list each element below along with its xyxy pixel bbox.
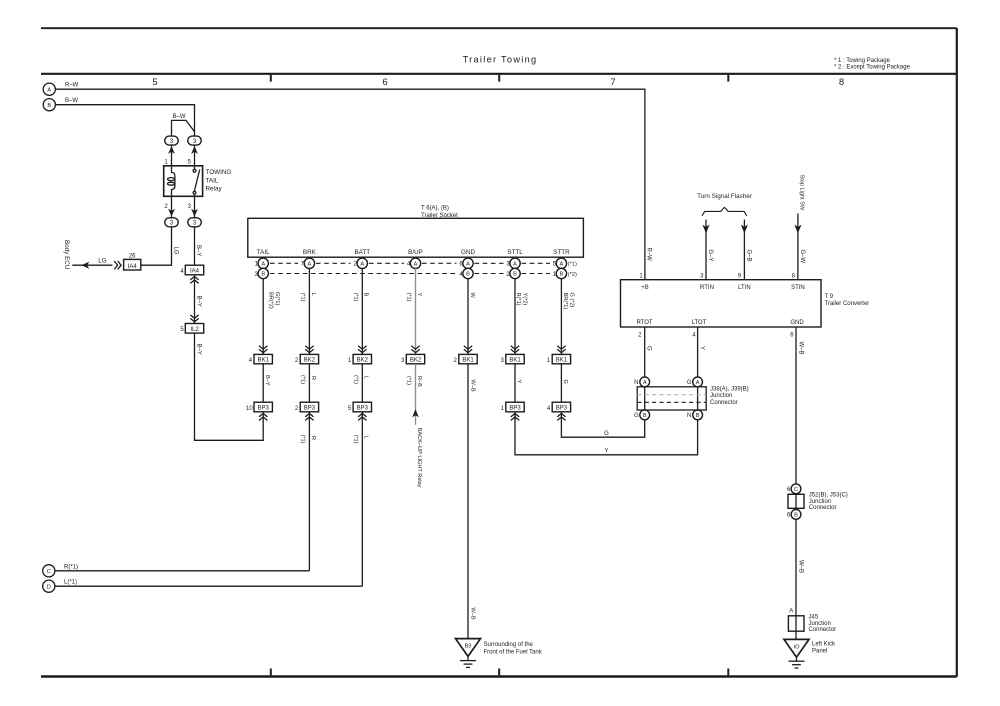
svg-text:6: 6: [382, 77, 387, 88]
svg-text:B/UP: B/UP: [408, 249, 423, 256]
connector IA4 pin 26: [124, 253, 141, 270]
svg-text:BK1: BK1: [509, 358, 521, 364]
connector BK2 pin 1: [348, 354, 372, 364]
chevron junction: [464, 346, 472, 353]
bus row A dashed: [270, 262, 550, 264]
connector BK1 pin 3: [501, 354, 525, 364]
svg-text:BATT: BATT: [354, 249, 370, 256]
wire G-Y from flasher to RTIN: [705, 220, 707, 280]
wire RTOT G: [644, 327, 646, 377]
pin 4 A (B/UP): [407, 258, 421, 268]
wire L(*1) from D: [55, 585, 362, 587]
svg-text:26: 26: [129, 253, 136, 259]
svg-text:T 9: T 9: [825, 294, 834, 300]
svg-text:R–W: R–W: [65, 82, 79, 88]
svg-text:G–W: G–W: [799, 250, 805, 264]
svg-text:BP3: BP3: [258, 406, 270, 412]
svg-text:L: L: [310, 293, 316, 296]
svg-text:Y: Y: [516, 380, 522, 384]
svg-text:Junction: Junction: [809, 499, 831, 505]
svg-text:(*1): (*1): [352, 435, 358, 444]
svg-text:TAIL: TAIL: [206, 177, 219, 184]
chevron junction: [305, 346, 313, 353]
svg-text:BP3: BP3: [556, 406, 568, 412]
wire R: [308, 364, 310, 402]
pin 3 A (STTL): [506, 258, 520, 268]
svg-text:R: R: [310, 376, 316, 380]
arrow: [702, 225, 709, 234]
wire BRK column: [308, 269, 310, 355]
svg-text:STIN: STIN: [791, 285, 805, 291]
svg-text:Surrounding of the: Surrounding of the: [484, 642, 534, 648]
svg-text:BRK: BRK: [303, 249, 317, 256]
wire IL2 down to TAIL column: [195, 333, 264, 440]
ground B3: [456, 639, 481, 668]
wire Y: [514, 364, 516, 402]
chevron junction: [511, 346, 519, 353]
svg-text:Connector: Connector: [710, 400, 738, 406]
svg-text:G–Y: G–Y: [707, 250, 713, 262]
wire pin2 leg to IA4: [141, 227, 172, 265]
brace: [702, 207, 747, 216]
bus row B dashed: [270, 273, 550, 275]
wire G-W from stop light sw to STIN: [797, 214, 799, 280]
svg-text:Junction: Junction: [809, 621, 831, 627]
svg-text:Turn Signal Flasher: Turn Signal Flasher: [697, 193, 752, 200]
svg-text:BR(*2): BR(*2): [268, 292, 274, 309]
wire W-B to ground B3: [467, 364, 469, 639]
node C: [43, 565, 55, 577]
svg-text:Left Kick: Left Kick: [812, 641, 836, 647]
svg-text:BK2: BK2: [357, 358, 369, 364]
svg-text:G: G: [646, 346, 652, 351]
svg-text:LTIN: LTIN: [738, 285, 751, 291]
wire R-B (grey) to back-up light relay: [415, 364, 417, 425]
svg-text:10: 10: [246, 406, 253, 412]
pin 6 B: [787, 510, 801, 520]
svg-text:B: B: [696, 413, 700, 419]
pin G A: [687, 377, 703, 387]
svg-text:W–B: W–B: [797, 342, 803, 355]
wire Y to junction connector: [515, 412, 698, 455]
svg-text:Y(*2): Y(*2): [522, 293, 528, 306]
chevron junction: [411, 346, 419, 353]
arrow to Body ECU: [81, 262, 89, 269]
wire relay pin2 down: [171, 196, 173, 218]
connector BP3 pin 2: [295, 402, 319, 412]
svg-text:C: C: [794, 487, 798, 493]
svg-text:IL2: IL2: [190, 327, 199, 333]
wire R(*1) from C: [55, 570, 310, 572]
svg-text:B–Y: B–Y: [196, 344, 202, 355]
svg-text:A: A: [261, 261, 265, 267]
svg-text:R: R: [310, 436, 316, 440]
connector BK1 pin 2: [454, 354, 478, 364]
svg-text:RTOT: RTOT: [636, 320, 652, 326]
wire BATT column: [361, 269, 363, 355]
svg-text:Stop Light SW: Stop Light SW: [798, 175, 804, 211]
node D: [43, 580, 55, 592]
svg-text:A: A: [560, 261, 564, 267]
svg-text:B: B: [643, 413, 647, 419]
wire IA4 to IL2: [194, 275, 196, 324]
svg-text:(*1): (*1): [406, 293, 412, 302]
svg-text:A: A: [643, 380, 647, 386]
wire R-W from A to converter +B: [55, 89, 645, 280]
svg-text:(*1): (*1): [568, 262, 577, 268]
connector box: [788, 494, 804, 510]
svg-text:R–B: R–B: [416, 376, 422, 387]
svg-text:R(*1): R(*1): [64, 564, 78, 570]
svg-text:(*1): (*1): [299, 435, 305, 444]
svg-text:G(*1): G(*1): [274, 292, 280, 306]
svg-text:Y: Y: [699, 346, 705, 350]
svg-text:A: A: [789, 609, 793, 615]
svg-text:B: B: [363, 293, 369, 297]
pin 7 A (BRK): [301, 258, 315, 268]
svg-text:G–B: G–B: [745, 250, 751, 262]
svg-text:Connector: Connector: [809, 505, 837, 511]
connector 3 (relay pin 5): [188, 136, 202, 154]
svg-text:LG: LG: [98, 257, 107, 264]
svg-text:L: L: [363, 376, 369, 379]
svg-text:B–Y: B–Y: [264, 375, 270, 386]
connector IA4 pin 4: [180, 265, 203, 275]
svg-text:RTIN: RTIN: [700, 285, 714, 291]
arrow: [794, 225, 801, 234]
svg-text:A: A: [360, 261, 364, 267]
junction connector J45: [788, 616, 804, 631]
svg-text:R(*1): R(*1): [515, 293, 521, 306]
chevron junction: [511, 414, 519, 421]
svg-text:BK1: BK1: [462, 358, 474, 364]
svg-text:A: A: [466, 261, 470, 267]
svg-text:BACK–UP LIGHT Relay: BACK–UP LIGHT Relay: [416, 428, 422, 488]
svg-text:IA4: IA4: [128, 264, 138, 270]
svg-text:(*1): (*1): [299, 293, 305, 302]
svg-text:B–W: B–W: [65, 98, 78, 104]
svg-text:J45: J45: [809, 615, 819, 621]
connector 3 (below pin 3): [188, 209, 202, 227]
pin 2 B (STTL): [506, 268, 520, 278]
chevron junction: [259, 346, 267, 353]
pin N B: [687, 410, 702, 420]
svg-text:Body ECU: Body ECU: [63, 240, 70, 270]
ground IO Left Kick Panel: [784, 639, 809, 668]
connector BP3 pin 1: [501, 402, 525, 412]
wire G-B from flasher to LTIN: [743, 220, 745, 280]
chevron junction: [557, 346, 565, 353]
svg-text:L: L: [363, 436, 369, 439]
svg-text:W–B: W–B: [469, 608, 475, 620]
svg-text:8: 8: [839, 77, 844, 88]
svg-text:* 1 : Towing Package: * 1 : Towing Package: [834, 58, 891, 64]
svg-text:Trailer Towing: Trailer Towing: [463, 55, 538, 65]
svg-text:D: D: [47, 584, 51, 590]
connector IL2 pin 5: [180, 324, 203, 334]
chevron junction: [259, 414, 267, 421]
svg-text:T 6(A), (B): T 6(A), (B): [421, 206, 449, 212]
svg-text:(*1): (*1): [352, 293, 358, 302]
svg-text:+B: +B: [641, 285, 649, 291]
pin 1 A (TAIL): [255, 258, 269, 268]
svg-text:B: B: [261, 272, 265, 278]
connector BK2 pin 2: [295, 354, 319, 364]
svg-text:N: N: [687, 413, 691, 419]
svg-text:TOWING: TOWING: [206, 169, 232, 176]
svg-text:G: G: [687, 380, 692, 386]
relay TOWING TAIL Relay: [164, 166, 232, 197]
wire LG to Body ECU: [72, 264, 112, 266]
svg-text:J38(A), J39(B): J38(A), J39(B): [710, 386, 749, 392]
wire pin5 to relay: [194, 145, 196, 166]
svg-text:BK2: BK2: [410, 358, 422, 364]
svg-text:Trailer Socket: Trailer Socket: [421, 213, 458, 219]
pin 4 B (GND): [459, 268, 473, 278]
pin 1 B (STTR): [553, 268, 577, 278]
svg-text:(*1): (*1): [299, 375, 305, 384]
arrow from back-up light relay: [412, 409, 419, 417]
svg-text:Relay: Relay: [206, 185, 223, 192]
svg-text:B: B: [560, 272, 564, 278]
pin 2 A (BATT): [354, 258, 368, 268]
svg-text:W–B: W–B: [797, 560, 803, 573]
svg-text:BP3: BP3: [304, 406, 316, 412]
wire pin3 leg to IA4: [194, 227, 196, 265]
chevron junction: [358, 414, 366, 421]
wire GND W-B: [795, 327, 797, 484]
svg-text:B: B: [47, 103, 51, 109]
svg-text:Y: Y: [416, 293, 422, 297]
svg-text:B–Y: B–Y: [195, 245, 201, 256]
svg-text:B3: B3: [465, 644, 472, 650]
svg-text:GND: GND: [461, 249, 475, 256]
arrow: [741, 225, 748, 234]
wire B-W from B to towing tail relay: [55, 105, 194, 136]
svg-text:N: N: [634, 380, 638, 386]
svg-text:Y: Y: [604, 449, 608, 455]
svg-text:LG: LG: [172, 247, 178, 255]
pin N A: [634, 377, 649, 387]
node B: [43, 99, 55, 111]
svg-text:TAIL: TAIL: [257, 249, 270, 256]
pin G B: [634, 410, 650, 420]
svg-text:C: C: [47, 569, 51, 575]
svg-text:J52(B), J53(C): J52(B), J53(C): [809, 492, 848, 498]
svg-text:BK2: BK2: [304, 358, 316, 364]
svg-text:BR(*1): BR(*1): [562, 293, 568, 310]
svg-text:B: B: [513, 272, 517, 278]
wire GND column: [467, 279, 469, 355]
connector BP3 pin 4: [547, 402, 571, 412]
wire LTOT Y: [697, 327, 699, 377]
chevron junction: [358, 346, 366, 353]
svg-text:W–B: W–B: [469, 380, 475, 392]
junction connector J38(A), J39(B): [637, 387, 706, 410]
connector BP3 pin 5: [348, 402, 372, 412]
svg-text:G: G: [634, 413, 639, 419]
svg-text:A: A: [513, 261, 517, 267]
svg-text:B: B: [794, 513, 798, 519]
svg-text:STTR: STTR: [553, 249, 570, 256]
chevron junction: [190, 277, 198, 284]
svg-text:BP3: BP3: [357, 406, 369, 412]
chevron junction: [190, 315, 198, 322]
trailer socket T6: [248, 206, 584, 258]
converter T9 Trailer Converter: [621, 280, 822, 327]
wire TAIL column: [262, 279, 264, 355]
svg-text:5: 5: [152, 77, 157, 88]
svg-text:G: G: [562, 380, 568, 384]
pin 5 A (STTR): [553, 258, 577, 268]
svg-text:A: A: [47, 87, 51, 93]
pin 3 B (TAIL): [255, 268, 269, 278]
svg-text:IA4: IA4: [190, 269, 200, 275]
svg-text:A: A: [696, 380, 700, 386]
wire W-B to J45: [795, 519, 797, 639]
connector BP3 pin 10: [246, 402, 272, 412]
svg-text:Connector: Connector: [809, 627, 837, 633]
connector BK2 pin 3: [401, 354, 425, 364]
svg-text:STTL: STTL: [507, 249, 523, 256]
connector 3 (relay pin 1): [165, 136, 179, 154]
svg-text:R–W: R–W: [645, 248, 651, 262]
wire L to node D: [361, 412, 363, 586]
svg-text:Panel: Panel: [812, 649, 827, 655]
svg-text:Junction: Junction: [710, 393, 732, 399]
wire R to node C: [308, 412, 310, 571]
svg-text:IO: IO: [794, 644, 801, 650]
svg-text:(*2): (*2): [568, 272, 577, 278]
svg-text:* 2 : Except Towing Package: * 2 : Except Towing Package: [834, 65, 911, 71]
svg-text:BK1: BK1: [258, 358, 270, 364]
svg-text:GND: GND: [790, 320, 804, 326]
wire B/UP column (grey): [415, 269, 417, 355]
wire G: [560, 364, 562, 402]
wire branch to relay pin 1: [172, 120, 195, 136]
wire G to junction connector: [561, 412, 644, 437]
wire STTR column: [560, 279, 562, 355]
node A: [43, 83, 55, 95]
svg-text:BP3: BP3: [509, 406, 521, 412]
wire B-Y: [262, 364, 264, 402]
wire L: [361, 364, 363, 402]
svg-text:B: B: [466, 272, 470, 278]
wire pin1 to relay: [171, 145, 173, 166]
svg-text:G: G: [604, 431, 609, 437]
svg-text:G (*2): G (*2): [568, 293, 574, 308]
svg-text:Trailer Converter: Trailer Converter: [825, 301, 870, 307]
svg-text:LTOT: LTOT: [692, 320, 707, 326]
svg-text:7: 7: [610, 77, 615, 88]
wire STTL column: [514, 279, 516, 355]
wire relay pin3 down: [194, 196, 196, 218]
pin 6 A (GND): [459, 258, 473, 268]
svg-text:A: A: [308, 261, 312, 267]
svg-text:A: A: [414, 261, 418, 267]
svg-text:W: W: [469, 293, 475, 299]
svg-text:(*1): (*1): [352, 375, 358, 384]
svg-text:(*1): (*1): [406, 376, 412, 385]
svg-text:Front of the Fuel Tank: Front of the Fuel Tank: [484, 649, 543, 655]
svg-text:L(*1): L(*1): [64, 580, 77, 586]
connector 3 (below pin 2): [165, 209, 179, 227]
junction connector J52(B), J53(C): [787, 484, 801, 494]
chevron junction: [557, 414, 565, 421]
connector BK1 pin 1: [547, 354, 571, 364]
svg-text:BK1: BK1: [556, 358, 568, 364]
svg-text:B–W: B–W: [173, 114, 186, 120]
svg-text:B–Y: B–Y: [196, 296, 202, 307]
connector BK1 pin 4: [249, 354, 273, 364]
chevron junction: [305, 414, 313, 421]
chevron junction: [114, 261, 121, 269]
